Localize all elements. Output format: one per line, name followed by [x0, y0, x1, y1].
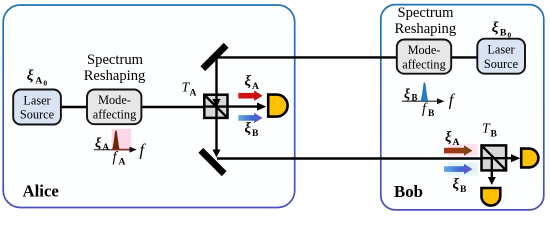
- svg-text:Laser: Laser: [23, 93, 50, 107]
- Bob right detector: [521, 149, 538, 168]
- mirror bottom (45 deg): [198, 148, 226, 176]
- svg-text:Mode-: Mode-: [98, 93, 131, 107]
- svg-text:B: B: [500, 27, 507, 38]
- svg-text:A: A: [103, 142, 110, 152]
- svg-text:affecting: affecting: [93, 107, 136, 121]
- svg-text:B: B: [460, 184, 467, 195]
- svg-text:Alice: Alice: [23, 182, 60, 201]
- svg-text:Mode-: Mode-: [408, 43, 441, 57]
- svg-text:B: B: [412, 92, 418, 102]
- Bob mode-affecting box: [397, 40, 451, 74]
- Alice plot axis: [94, 149, 131, 151]
- pale cyan glow behind Bob blue arrow: [448, 162, 478, 175]
- wire: vertical top mirror down into beamsplitter TA: [215, 57, 217, 99]
- wire: TA to Alice detector with arrowhead: [217, 105, 258, 107]
- Alice laser source box: [13, 90, 61, 125]
- Bob spectrum plot axis: [402, 100, 438, 102]
- wire: Alice laser to mode-affecting: [60, 106, 88, 108]
- svg-text:A: A: [190, 88, 197, 99]
- dark red block arrow (Bob): [444, 145, 473, 155]
- Alice plot peak (dark red): [112, 130, 120, 149]
- svg-text:Laser: Laser: [487, 43, 514, 57]
- svg-text:Bob: Bob: [394, 182, 423, 201]
- Bob bottom detector: [482, 188, 501, 206]
- beamsplitter TB: [482, 145, 507, 170]
- svg-text:A: A: [119, 157, 126, 168]
- Alice detector (photodiode D shape): [268, 95, 287, 117]
- svg-text:A: A: [252, 81, 259, 92]
- svg-text:Reshaping: Reshaping: [395, 21, 457, 37]
- svg-text:B: B: [491, 129, 498, 140]
- blue block arrow (Alice): [238, 113, 262, 123]
- pale pink glow behind Bob red arrow: [448, 144, 478, 157]
- Bob enclosure box: [381, 5, 544, 210]
- svg-text:ξ: ξ: [245, 121, 252, 137]
- mirror top (45 deg): [200, 43, 228, 71]
- svg-text:ξ: ξ: [27, 68, 34, 84]
- wire: Bob mode-affecting to Bob laser: [451, 56, 478, 58]
- svg-text:Spectrum: Spectrum: [87, 52, 144, 68]
- svg-text:ξ: ξ: [453, 177, 460, 193]
- svg-text:ξ: ξ: [245, 74, 252, 90]
- red block arrow (Alice): [238, 91, 262, 101]
- svg-text:B: B: [252, 128, 259, 139]
- Bob plot peak (blue): [421, 82, 429, 101]
- wire: TB to Bob right detector with arrowhead: [494, 157, 512, 159]
- svg-text:A: A: [453, 137, 460, 148]
- svg-text:Source: Source: [484, 57, 519, 71]
- svg-text:ξ: ξ: [492, 20, 499, 36]
- wire: Alice mode-affecting to beamsplitter TA: [140, 106, 216, 108]
- Bob laser source box: [477, 39, 525, 74]
- Alice enclosure box: [3, 5, 295, 208]
- svg-text:Spectrum: Spectrum: [398, 5, 455, 21]
- wire: top horizontal from Bob mode-affecting to top mirror: [217, 56, 398, 58]
- Alice spectrum plot: pink band: [112, 129, 131, 150]
- wire: bottom horizontal from bottom mirror to Bob beamsplitter TB: [217, 157, 494, 159]
- svg-text:ξ: ξ: [95, 135, 101, 150]
- svg-text:Reshaping: Reshaping: [84, 68, 146, 84]
- wire: vertical through TA down to bottom mirror: [215, 106, 217, 150]
- wire: TB down to Bob bottom detector with arrowhead: [491, 158, 493, 178]
- beamsplitter TA: [204, 95, 227, 118]
- svg-text:B: B: [428, 108, 435, 119]
- svg-text:Source: Source: [20, 108, 55, 122]
- svg-text:A: A: [35, 75, 42, 86]
- svg-text:ξ: ξ: [445, 130, 452, 146]
- svg-text:0: 0: [43, 79, 47, 88]
- blue block arrow (Bob): [444, 164, 473, 174]
- arrowhead down inside TA: [212, 99, 220, 107]
- svg-text:ξ: ξ: [404, 86, 410, 101]
- Alice mode-affecting box: [87, 90, 141, 125]
- svg-text:affecting: affecting: [402, 57, 445, 71]
- arrowhead down above bottom mirror: [213, 150, 221, 158]
